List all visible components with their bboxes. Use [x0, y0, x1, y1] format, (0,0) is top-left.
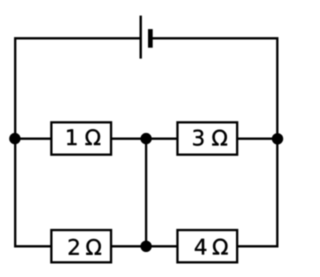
- wire: middle vertical link (node B to node C): [145, 139, 147, 247]
- wire: 3-ohm box to right rail: [238, 138, 277, 140]
- label 1 ohm: [67, 129, 100, 145]
- wire: 2-ohm box to node C to 4-ohm box: [112, 245, 177, 247]
- wire: 1-ohm box to 3-ohm box through node B: [112, 138, 177, 140]
- resistor R4 box: [177, 230, 237, 262]
- battery V1: short thick (negative) plate: [148, 29, 153, 48]
- wire: top-right loop (battery to right rail, down, bottom-right to 4-ohm box): [150, 38, 277, 246]
- label 4 ohm: [195, 239, 228, 255]
- wire: top-left loop (battery to left rail, down, bottom-left to 2-ohm box): [15, 38, 141, 246]
- resistor R1 box: [51, 122, 111, 154]
- resistor R3 box: [177, 122, 237, 154]
- resistor R2 box: [51, 230, 111, 262]
- node B (middle top junction dot): [140, 133, 151, 144]
- node C (middle bottom junction dot): [140, 241, 151, 252]
- node A (left junction dot): [9, 133, 20, 144]
- label 3 ohm: [193, 130, 227, 146]
- battery V1: long (positive) plate: [140, 16, 142, 59]
- wire: left rail to 1-ohm box: [15, 138, 51, 140]
- label 2 ohm: [69, 239, 101, 255]
- node D (right junction dot): [272, 133, 283, 144]
